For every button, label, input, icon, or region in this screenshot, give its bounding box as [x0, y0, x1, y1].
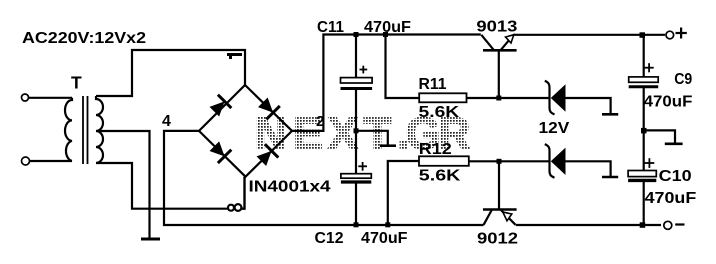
wire: Q1 base node to zener ZD1: [499, 97, 549, 99]
wire: C10 to bottom rail: [643, 182, 645, 225]
wire: center tap to ground: [97, 131, 150, 238]
wire: Q2 base node to zener ZD2: [499, 160, 549, 162]
resistor R12: [419, 156, 469, 166]
wire: C9 from top rail: [643, 35, 645, 78]
junction: C9 top: [640, 32, 646, 38]
svg-text:470uF: 470uF: [644, 94, 693, 111]
transistor Q2 9012: [483, 161, 517, 225]
terminal: + output: [666, 31, 674, 39]
capacitor C10: [628, 158, 656, 180]
ground (0V stub): [380, 144, 396, 147]
junction: Q2 base node: [497, 159, 502, 164]
junction: C11 top: [354, 32, 359, 37]
svg-text:470uF: 470uF: [364, 19, 411, 36]
svg-text:C11: C11: [317, 19, 344, 36]
zener diode ZD2: [545, 144, 566, 178]
junction: 0V node: [354, 128, 359, 133]
ground (right mid stub): [665, 143, 683, 146]
transformer T primary winding: [65, 98, 72, 161]
wire: ZD1 anode to ground: [566, 98, 611, 113]
terminal: AC input upper: [22, 94, 29, 101]
svg-text:C12: C12: [315, 230, 344, 247]
wire: upper AC input to primary: [29, 97, 73, 99]
wire: bottom rail (emitter to - output): [516, 224, 661, 226]
transformer T secondary winding: [96, 96, 103, 163]
svg-text:T: T: [71, 73, 82, 93]
junction: right mid node: [641, 128, 647, 133]
wire: right mid node to C10: [643, 130, 645, 171]
wire: ZD2 anode to ground: [566, 161, 611, 176]
wire: lower AC input to primary: [30, 160, 73, 162]
connector bumps on wire: [228, 204, 241, 211]
svg-text:X: X: [328, 109, 358, 158]
junction: C12 bottom: [354, 222, 359, 227]
svg-text:AC220V:12Vx2: AC220V:12Vx2: [22, 30, 146, 47]
diode D4 (lower-right, pointing to right corner): [255, 144, 279, 168]
label + (output): [676, 28, 687, 39]
svg-text:C10: C10: [659, 168, 692, 185]
svg-text:5.6K: 5.6K: [419, 168, 461, 185]
svg-text:9013: 9013: [476, 19, 517, 36]
capacitor C9: [629, 63, 659, 87]
svg-text:R12: R12: [419, 141, 452, 158]
wire: secondary bottom to connector bumps: [96, 163, 228, 209]
junction: Q1 base node: [496, 96, 501, 101]
capacitor C12: [341, 162, 371, 182]
wire: C11 to 0V node: [355, 90, 357, 131]
svg-text:470uF: 470uF: [645, 190, 697, 207]
transformer T core: [82, 96, 84, 164]
junction: R12 bottom: [385, 222, 390, 227]
ground (ZD2): [602, 176, 618, 179]
wire: C12 to bottom rail: [355, 184, 357, 226]
capacitor C11: [341, 66, 373, 89]
svg-text:4: 4: [162, 113, 171, 130]
svg-text:5.6K: 5.6K: [419, 104, 460, 121]
terminal: AC input lower: [22, 157, 30, 165]
svg-text:470uF: 470uF: [361, 230, 408, 247]
diode D3 (lower-left, pointing to bottom corner): [208, 139, 232, 163]
diode D1 (upper-left, pointing to top corner): [208, 95, 232, 119]
wire: bridge plus (pin 2) up to top rail (left part): [292, 35, 481, 131]
svg-text:IN4001x4: IN4001x4: [249, 179, 331, 196]
watermark NEXT.GR: [255, 109, 471, 158]
junction: R11 top: [383, 32, 388, 37]
wire: 0V node to ground stub: [356, 131, 388, 145]
bridge rectifier frame: [199, 85, 292, 177]
zener diode ZD1 12V: [545, 81, 566, 115]
pin label 1 (sideways digit): [227, 53, 242, 59]
svg-text:9012: 9012: [477, 231, 518, 248]
wire: R11 to Q1 base node: [467, 97, 499, 99]
wire: bumps to bridge bottom corner: [242, 177, 245, 209]
label - (output): [675, 223, 684, 225]
svg-text:C9: C9: [674, 71, 692, 88]
transistor Q1 9013: [481, 35, 516, 98]
svg-text:R11: R11: [419, 76, 447, 93]
svg-text:12V: 12V: [539, 120, 570, 137]
diode D2 (upper-right, pointing to right corner): [256, 96, 280, 120]
wire: bridge minus (pin 4) to bottom rail (left part): [164, 131, 484, 225]
wire: C11 from rail: [355, 35, 357, 79]
ground (center tap): [141, 238, 160, 241]
terminal: - output: [664, 221, 672, 229]
wire: R12 from bottom rail: [388, 161, 419, 225]
wire: secondary top to bridge top corner: [96, 50, 245, 96]
wire: right mid node ground stub: [644, 130, 675, 142]
wire: top rail (emitter to + output): [513, 34, 665, 36]
ground (ZD1): [602, 113, 618, 116]
junction: C10 bottom: [640, 222, 646, 228]
wire: C9 to right mid node: [643, 88, 645, 130]
wire: R12 to Q2 base node: [469, 160, 499, 162]
wire: 0V node to C12: [355, 131, 357, 174]
wire: R11 from top rail: [386, 35, 420, 99]
resistor R11: [419, 93, 466, 102]
